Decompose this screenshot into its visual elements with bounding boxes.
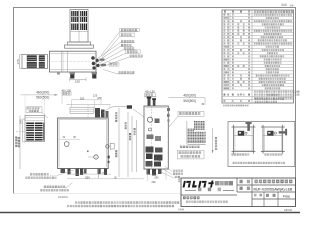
- exhaust stack grille upper band: [71, 11, 78, 16]
- svg-text:(25): (25): [97, 96, 102, 100]
- front view top dimension line with arrow: [21, 94, 58, 96]
- Rinnai logo bold katakana: [183, 181, 215, 188]
- exhaust grille label 41: [180, 146, 200, 148]
- front view burner circle: [64, 142, 69, 147]
- bottom page edge dark band: [0, 212, 300, 214]
- top view body centerline: [48, 61, 97, 63]
- title block model cell label: [240, 187, 251, 190]
- front view bottom pipe stubs: [61, 169, 66, 174]
- circulation fitting labels bottom left: [30, 173, 49, 175]
- spec table row lines: [222, 12, 294, 14]
- svg-text:560(500): 560(500): [36, 96, 49, 100]
- side view bottom stubs: [147, 169, 151, 175]
- spec table header row: [224, 11, 250, 13]
- svg-text:150: 150: [75, 80, 80, 84]
- svg-text:556: 556: [85, 175, 90, 179]
- install note inside box: [233, 162, 285, 164]
- dimension 170 left of top view: [19, 55, 21, 69]
- vertical dimension chain between views: [118, 108, 120, 177]
- tiny mark under title block: [178, 209, 184, 211]
- dimension 240 left of laundry unit: [22, 119, 24, 142]
- title block scale row cells: [254, 194, 262, 197]
- svg-text:240: 240: [19, 119, 23, 124]
- front view flat top duct: [70, 106, 94, 108]
- exhaust grille stepped block: [194, 121, 205, 130]
- svg-text:460(200): 460(200): [36, 90, 49, 94]
- top view legs and feet: [57, 72, 60, 75]
- front view bottom dim row2 556: [67, 178, 144, 180]
- install example caption right: [265, 153, 283, 155]
- side view body: [144, 106, 168, 169]
- scale note (1/4) above frame top-right: [282, 4, 287, 6]
- svg-text:460(200): 460(200): [183, 94, 196, 98]
- tiny revision marks left of title block: [178, 176, 180, 182]
- laundry unit label box: [26, 107, 42, 113]
- bottom note line 2: [67, 205, 174, 207]
- spec table bottom rows: [222, 96, 294, 98]
- flue top accessory label between views: [103, 106, 127, 113]
- top view left unit box: [22, 55, 48, 69]
- drawing frame border: [14, 8, 296, 207]
- svg-text:A6C02: A6C02: [284, 208, 292, 212]
- install example room upper exhaust: [234, 127, 254, 152]
- spec table remark block: [254, 91, 311, 93]
- bottom note line 1: [75, 201, 179, 203]
- title block division row: [185, 190, 196, 192]
- top view exhaust stack: [70, 10, 88, 43]
- top view left unit grille cells: [27, 55, 37, 61]
- install example caption left: [232, 153, 250, 155]
- exhaust outlet boxed label: [178, 111, 204, 116]
- exhaust stack base flange: [68, 42, 91, 45]
- svg-text:1/4: 1/4: [290, 3, 294, 7]
- title block dividers: [236, 178, 238, 192]
- side view bottom right leader labels: [173, 170, 183, 172]
- side view top pipe stubs: [148, 99, 151, 107]
- front view small mark: [87, 151, 89, 153]
- front view bottom dim row1: [67, 173, 111, 175]
- dimension 150 under top view: [70, 79, 87, 81]
- svg-text:170: 170: [16, 59, 20, 64]
- title block name cell label: [240, 180, 251, 183]
- front view main body: [58, 118, 109, 169]
- front view right small circle: [106, 145, 109, 148]
- svg-text:Free: Free: [283, 195, 290, 199]
- install example room side exhaust: [263, 127, 283, 152]
- exhaust stack mid seam: [70, 31, 88, 33]
- tiny mark above notes: [58, 196, 68, 198]
- svg-text:145: 145: [152, 171, 157, 174]
- Rinnai corporation name: [183, 196, 200, 199]
- side view right edge fittings: [167, 108, 170, 111]
- title block outer box: [181, 178, 296, 207]
- spec table body rows: [224, 14, 230, 16]
- top view leader labels right side: [121, 29, 137, 31]
- svg-text:560(500): 560(500): [183, 99, 196, 103]
- side view right vertical reference dim: [212, 128, 214, 153]
- centerline into grille: [16, 131, 26, 133]
- title block product division text: [215, 181, 233, 185]
- note under spec table: [223, 105, 249, 107]
- top view main body: [50, 51, 97, 72]
- laundry unit grille box: [25, 116, 45, 142]
- title block drawing name value: [255, 180, 293, 184]
- svg-text:250: 250: [154, 177, 159, 180]
- top view right end pipe fittings: [91, 56, 94, 59]
- exhaust option boxed label: [177, 150, 204, 159]
- spec table column dividers: [229, 13, 231, 90]
- front view crosshair circle: [94, 155, 98, 159]
- svg-text:290: 290: [152, 181, 157, 184]
- specification table outer box: [222, 10, 294, 103]
- Rinnai address line: [186, 201, 228, 203]
- front view top fittings cluster: [95, 108, 100, 117]
- side view interior dark cluster lower: [146, 147, 154, 153]
- inline boxed label on leader: [109, 63, 119, 67]
- dimension 445 reference left: [19, 116, 21, 170]
- svg-text:RUF-V2005SAW(A)-LEB: RUF-V2005SAW(A)-LEB: [254, 188, 293, 192]
- front view right edge small components: [108, 156, 110, 159]
- front view right side small box: [110, 143, 114, 149]
- installation examples outer box: [228, 122, 295, 167]
- exhaust stack grille lower band: [71, 24, 78, 31]
- side view interior components upper: [147, 117, 152, 122]
